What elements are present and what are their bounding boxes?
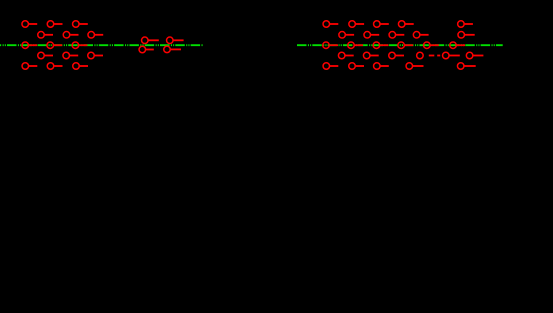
molecule R2e [458,32,475,39]
molecule R2b [364,32,379,39]
molecule R3f [450,42,465,49]
molecule M1a [142,37,159,44]
molecule R5c [374,63,389,70]
molecule L3a [22,42,37,49]
molecule L1c [73,21,88,28]
molecule R4c [389,52,404,59]
molecule R1d [398,21,413,28]
molecule L2c [88,32,103,39]
molecule R5e [457,63,475,70]
molecule R5d [406,63,423,70]
molecule L2a [38,32,53,39]
molecule L2b [63,32,78,39]
molecule L1b [47,21,62,28]
molecule L1a [22,21,37,28]
molecule L3c [72,42,87,49]
molecule R1e [458,21,473,28]
molecule R3c [373,42,388,49]
molecule R5b [349,63,364,70]
molecule R2a [339,32,354,39]
molecule R2c [389,32,404,39]
molecule R4e [443,52,460,59]
molecule R2d [413,32,428,39]
molecule L5a [22,63,37,70]
molecule L5b [47,63,62,70]
interface line left segment [0,44,203,46]
molecule M2a [139,46,154,53]
molecule R4a [338,52,353,59]
molecule R1a [323,21,338,28]
molecule L4c [88,52,103,59]
molecule R3b [348,42,363,49]
molecule R4b [363,52,378,59]
interface line right segment [297,44,503,46]
molecule R1b [349,21,364,28]
molecule R1c [374,21,389,28]
molecule R3d [398,42,413,49]
molecule M1b [167,37,184,44]
molecule R4f [466,52,483,59]
molecule M2b [164,46,181,53]
molecule L3b [47,42,62,49]
molecule R3a [323,42,338,49]
molecule L4a [38,52,53,59]
molecule R4d (dashed tail) [417,52,441,59]
molecule L4b [63,52,78,59]
molecule R3e [424,42,439,49]
molecule R5a [323,63,338,70]
molecule L5c [73,63,88,70]
